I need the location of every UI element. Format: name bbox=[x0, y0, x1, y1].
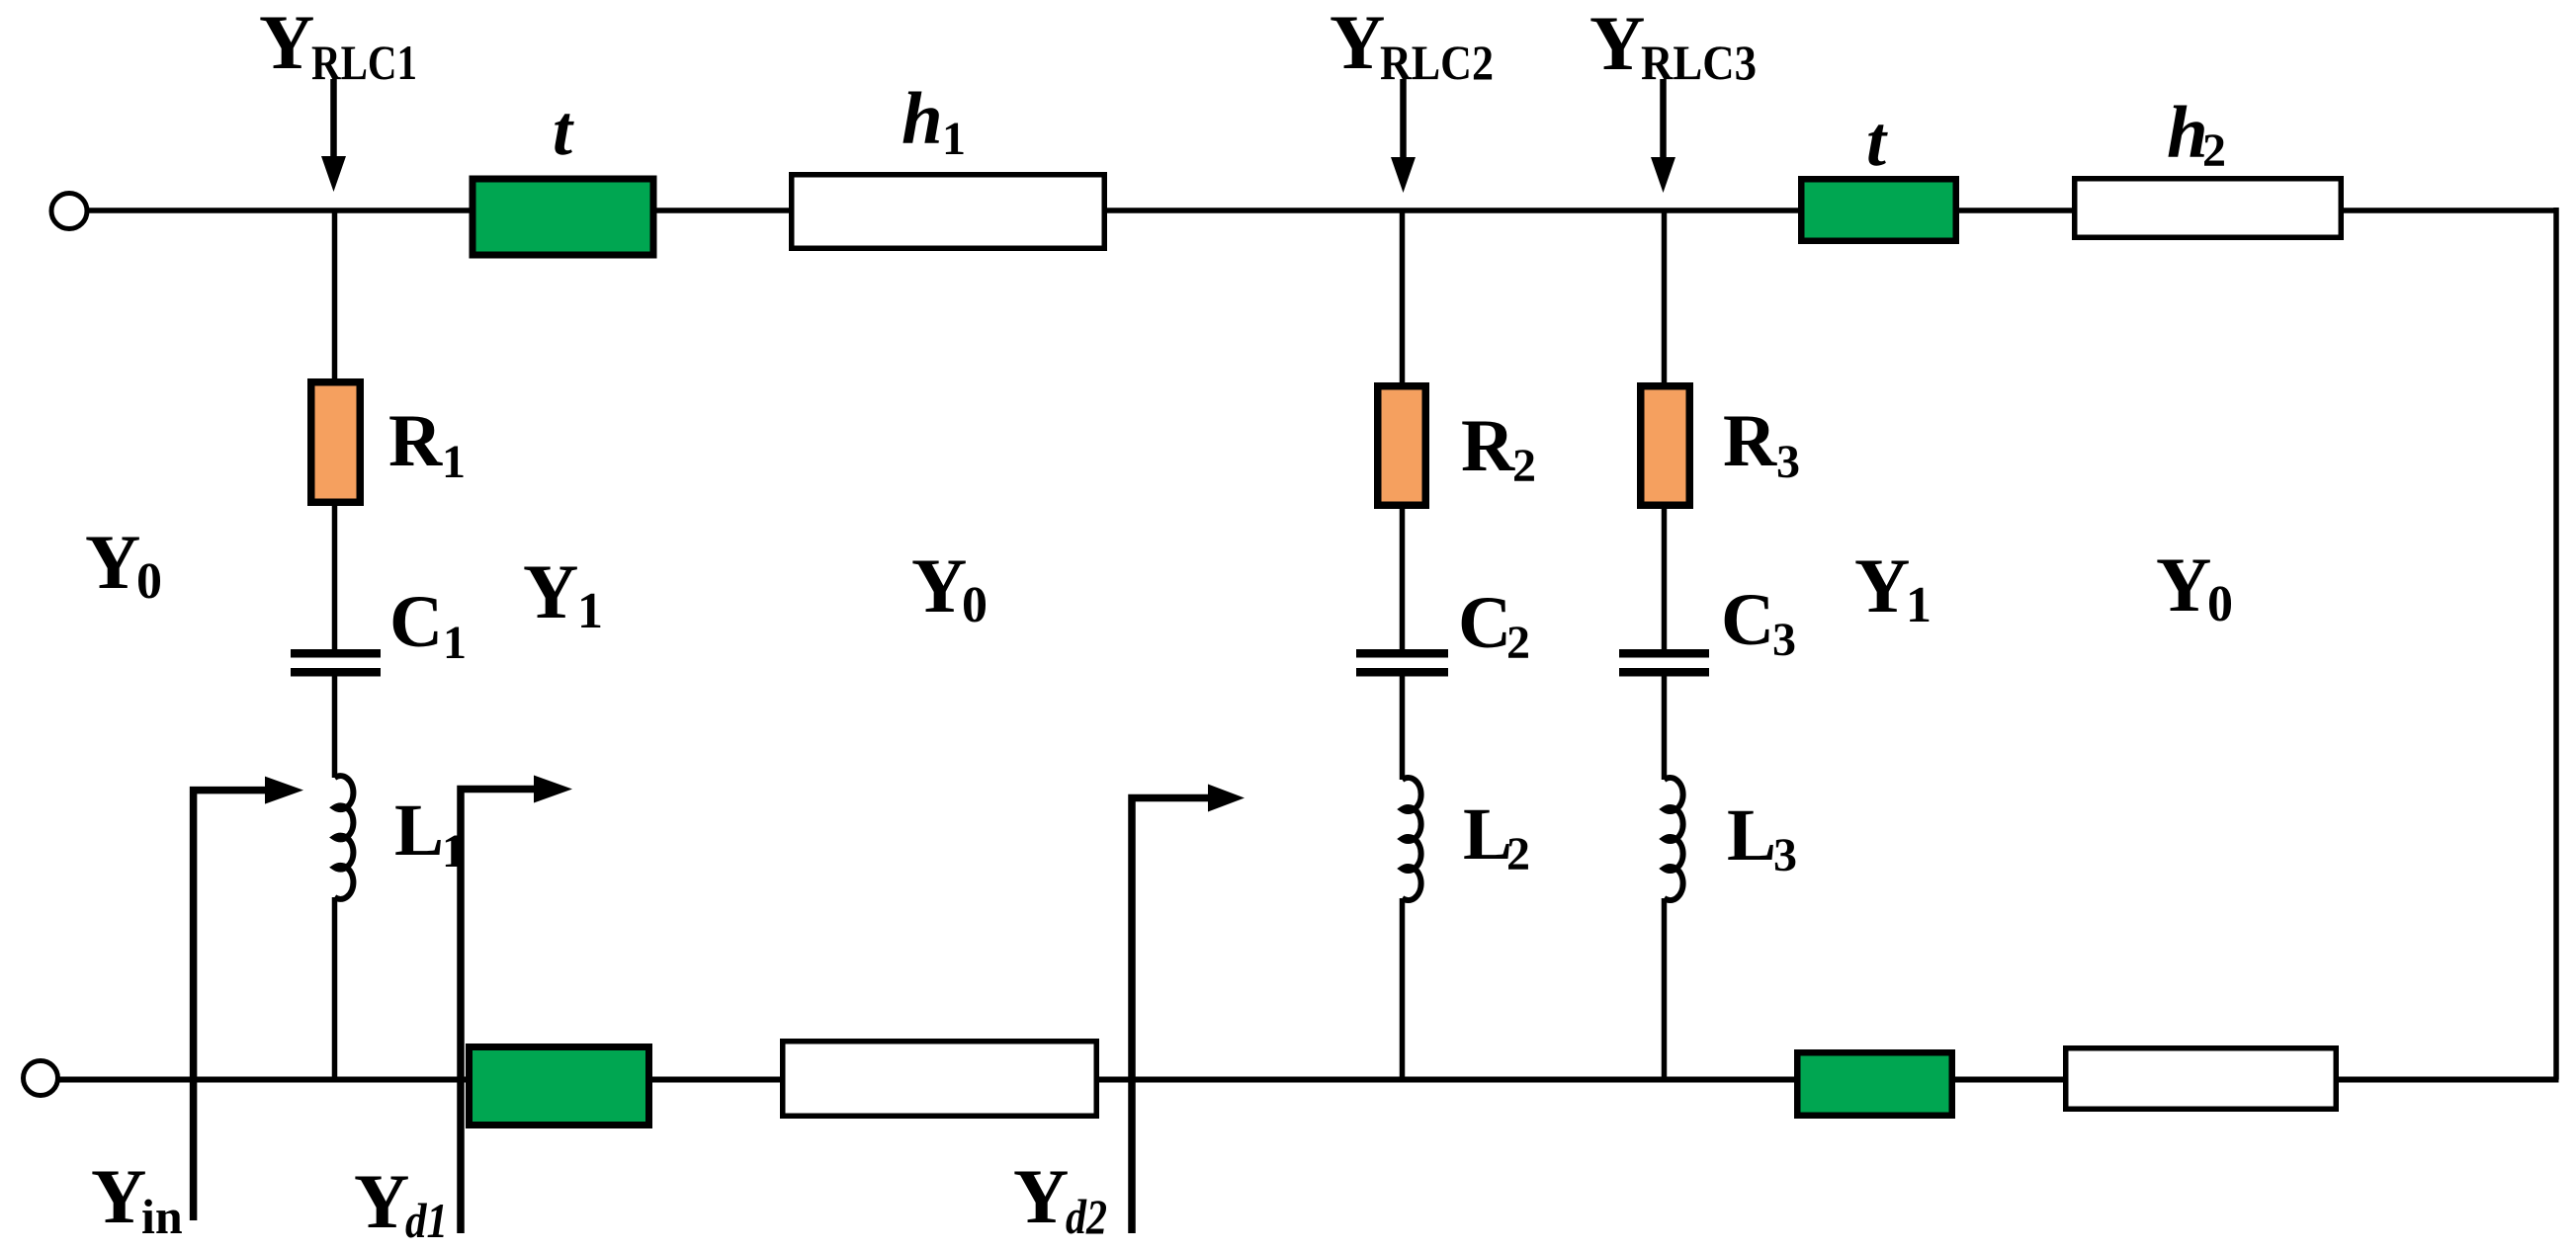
label L3 bbox=[1727, 794, 1797, 881]
svg-text:C: C bbox=[1721, 579, 1774, 661]
wire branch1 R1-C1 bbox=[332, 506, 338, 649]
svg-text:Y: Y bbox=[523, 548, 578, 634]
svg-text:Y: Y bbox=[354, 1158, 409, 1244]
svg-text:R: R bbox=[1723, 400, 1777, 482]
svg-text:1: 1 bbox=[1906, 577, 1932, 633]
svg-text:2: 2 bbox=[1512, 440, 1536, 492]
inductor L3 bbox=[1665, 778, 1683, 900]
label C2 bbox=[1458, 582, 1530, 669]
label R3 bbox=[1723, 400, 1800, 488]
label h2 bbox=[2167, 92, 2226, 177]
svg-text:Y: Y bbox=[1330, 0, 1385, 85]
transmission-line section t (top left, green) bbox=[470, 176, 657, 259]
label C3 bbox=[1721, 579, 1796, 666]
transmission-line section h1 (bottom, white) bbox=[780, 1039, 1099, 1119]
svg-text:C: C bbox=[1458, 582, 1511, 664]
svg-text:3: 3 bbox=[1776, 436, 1800, 488]
label Yin bbox=[91, 1153, 183, 1244]
svg-text:Y: Y bbox=[911, 543, 967, 628]
wire branch1 C1-L1 bbox=[332, 677, 338, 779]
resistor R3 bbox=[1637, 382, 1693, 509]
wire branch2 C2-L2 bbox=[1400, 677, 1406, 781]
arrow YRLC2 into node bbox=[1391, 79, 1416, 193]
wire branch1 lower bbox=[332, 897, 338, 1080]
transmission-line section t (top right, green) bbox=[1798, 176, 1959, 244]
arrow Yd2 reference plane bbox=[1132, 785, 1245, 1234]
wire branch3 upper bbox=[1662, 210, 1668, 382]
inductor L2 bbox=[1403, 778, 1421, 900]
svg-text:Y: Y bbox=[85, 519, 140, 605]
label L2 bbox=[1463, 793, 1530, 880]
svg-text:2: 2 bbox=[1506, 828, 1530, 880]
transmission-line section t (bottom left, green) bbox=[466, 1043, 652, 1128]
wire branch2 lower bbox=[1400, 898, 1406, 1080]
label Y0 (middle section) bbox=[911, 543, 987, 633]
svg-text:C: C bbox=[389, 581, 443, 663]
label Yd1 bbox=[354, 1158, 448, 1248]
svg-text:L: L bbox=[1727, 794, 1776, 876]
capacitor C2 bbox=[1356, 649, 1448, 677]
svg-text:0: 0 bbox=[962, 577, 987, 633]
svg-text:1: 1 bbox=[442, 825, 466, 877]
wire branch2 R2-C2 bbox=[1400, 509, 1406, 649]
svg-text:1: 1 bbox=[577, 583, 603, 639]
transmission-line section t (bottom right, green) bbox=[1794, 1049, 1955, 1119]
terminal bottom-left port bbox=[24, 1061, 58, 1096]
svg-text:1: 1 bbox=[443, 617, 467, 669]
label Y0 (far right) bbox=[2156, 542, 2233, 632]
label R2 bbox=[1461, 405, 1536, 492]
svg-text:R: R bbox=[1461, 405, 1515, 487]
svg-text:in: in bbox=[141, 1189, 183, 1244]
label R1 bbox=[388, 400, 466, 488]
arrow Yin reference plane bbox=[194, 777, 303, 1220]
resistor R1 bbox=[307, 378, 364, 506]
label YRLC1 bbox=[259, 0, 417, 90]
svg-text:1: 1 bbox=[942, 113, 966, 165]
terminal top-left port bbox=[51, 194, 87, 229]
svg-text:RLC2: RLC2 bbox=[1380, 35, 1494, 90]
svg-text:d2: d2 bbox=[1066, 1189, 1107, 1244]
svg-text:d1: d1 bbox=[405, 1193, 448, 1248]
inductor L1 bbox=[335, 776, 354, 899]
label YRLC2 bbox=[1330, 0, 1494, 90]
svg-text:Y: Y bbox=[1589, 0, 1645, 86]
label Y1 (right section) bbox=[1854, 543, 1932, 633]
transmission-line section h2 (bottom right, white) bbox=[2063, 1045, 2339, 1112]
svg-text:2: 2 bbox=[2202, 125, 2226, 177]
svg-text:Y: Y bbox=[1013, 1153, 1069, 1239]
svg-text:3: 3 bbox=[1773, 829, 1797, 881]
arrow YRLC3 into node bbox=[1651, 79, 1675, 193]
wire right vertical bbox=[2553, 208, 2559, 1080]
label C1 bbox=[389, 581, 467, 669]
svg-text:RLC3: RLC3 bbox=[1641, 35, 1757, 90]
svg-text:Y: Y bbox=[259, 0, 314, 85]
wire bottom bus bbox=[59, 1077, 2559, 1083]
arrow YRLC1 into node bbox=[321, 79, 346, 192]
svg-text:Y: Y bbox=[1854, 543, 1910, 628]
svg-text:1: 1 bbox=[442, 436, 466, 488]
label h1 bbox=[902, 78, 966, 165]
resistor R2 bbox=[1374, 382, 1429, 509]
svg-text:Y: Y bbox=[91, 1153, 146, 1239]
svg-text:3: 3 bbox=[1772, 614, 1796, 666]
svg-text:0: 0 bbox=[2207, 576, 2233, 632]
label L1 bbox=[394, 790, 466, 877]
svg-text:L: L bbox=[1463, 793, 1512, 876]
wire branch1 upper bbox=[332, 210, 338, 378]
capacitor C1 bbox=[291, 649, 381, 677]
svg-text:R: R bbox=[388, 400, 443, 482]
svg-text:Y: Y bbox=[2156, 542, 2211, 627]
wire branch3 C3-L3 bbox=[1662, 677, 1668, 781]
svg-text:t: t bbox=[553, 91, 574, 170]
wire branch2 upper bbox=[1400, 210, 1406, 382]
transmission-line section h2 (top right, white) bbox=[2072, 176, 2344, 240]
arrow Yd1 reference plane bbox=[461, 776, 572, 1234]
svg-text:2: 2 bbox=[1506, 617, 1530, 669]
svg-text:t: t bbox=[1866, 102, 1888, 181]
capacitor C3 bbox=[1619, 649, 1709, 677]
transmission-line section h1 (top, white) bbox=[789, 172, 1107, 251]
svg-text:L: L bbox=[394, 790, 444, 872]
label Y1 (left section) bbox=[523, 548, 603, 639]
svg-text:h: h bbox=[902, 78, 943, 160]
wire branch3 lower bbox=[1662, 898, 1668, 1080]
svg-text:RLC1: RLC1 bbox=[311, 35, 417, 90]
label YRLC3 bbox=[1589, 0, 1757, 90]
label Yd2 bbox=[1013, 1153, 1107, 1244]
wire top bus bbox=[87, 208, 2556, 213]
svg-text:0: 0 bbox=[136, 553, 162, 610]
label Y0 (far left) bbox=[85, 519, 162, 610]
wire branch3 R3-C3 bbox=[1662, 509, 1668, 649]
